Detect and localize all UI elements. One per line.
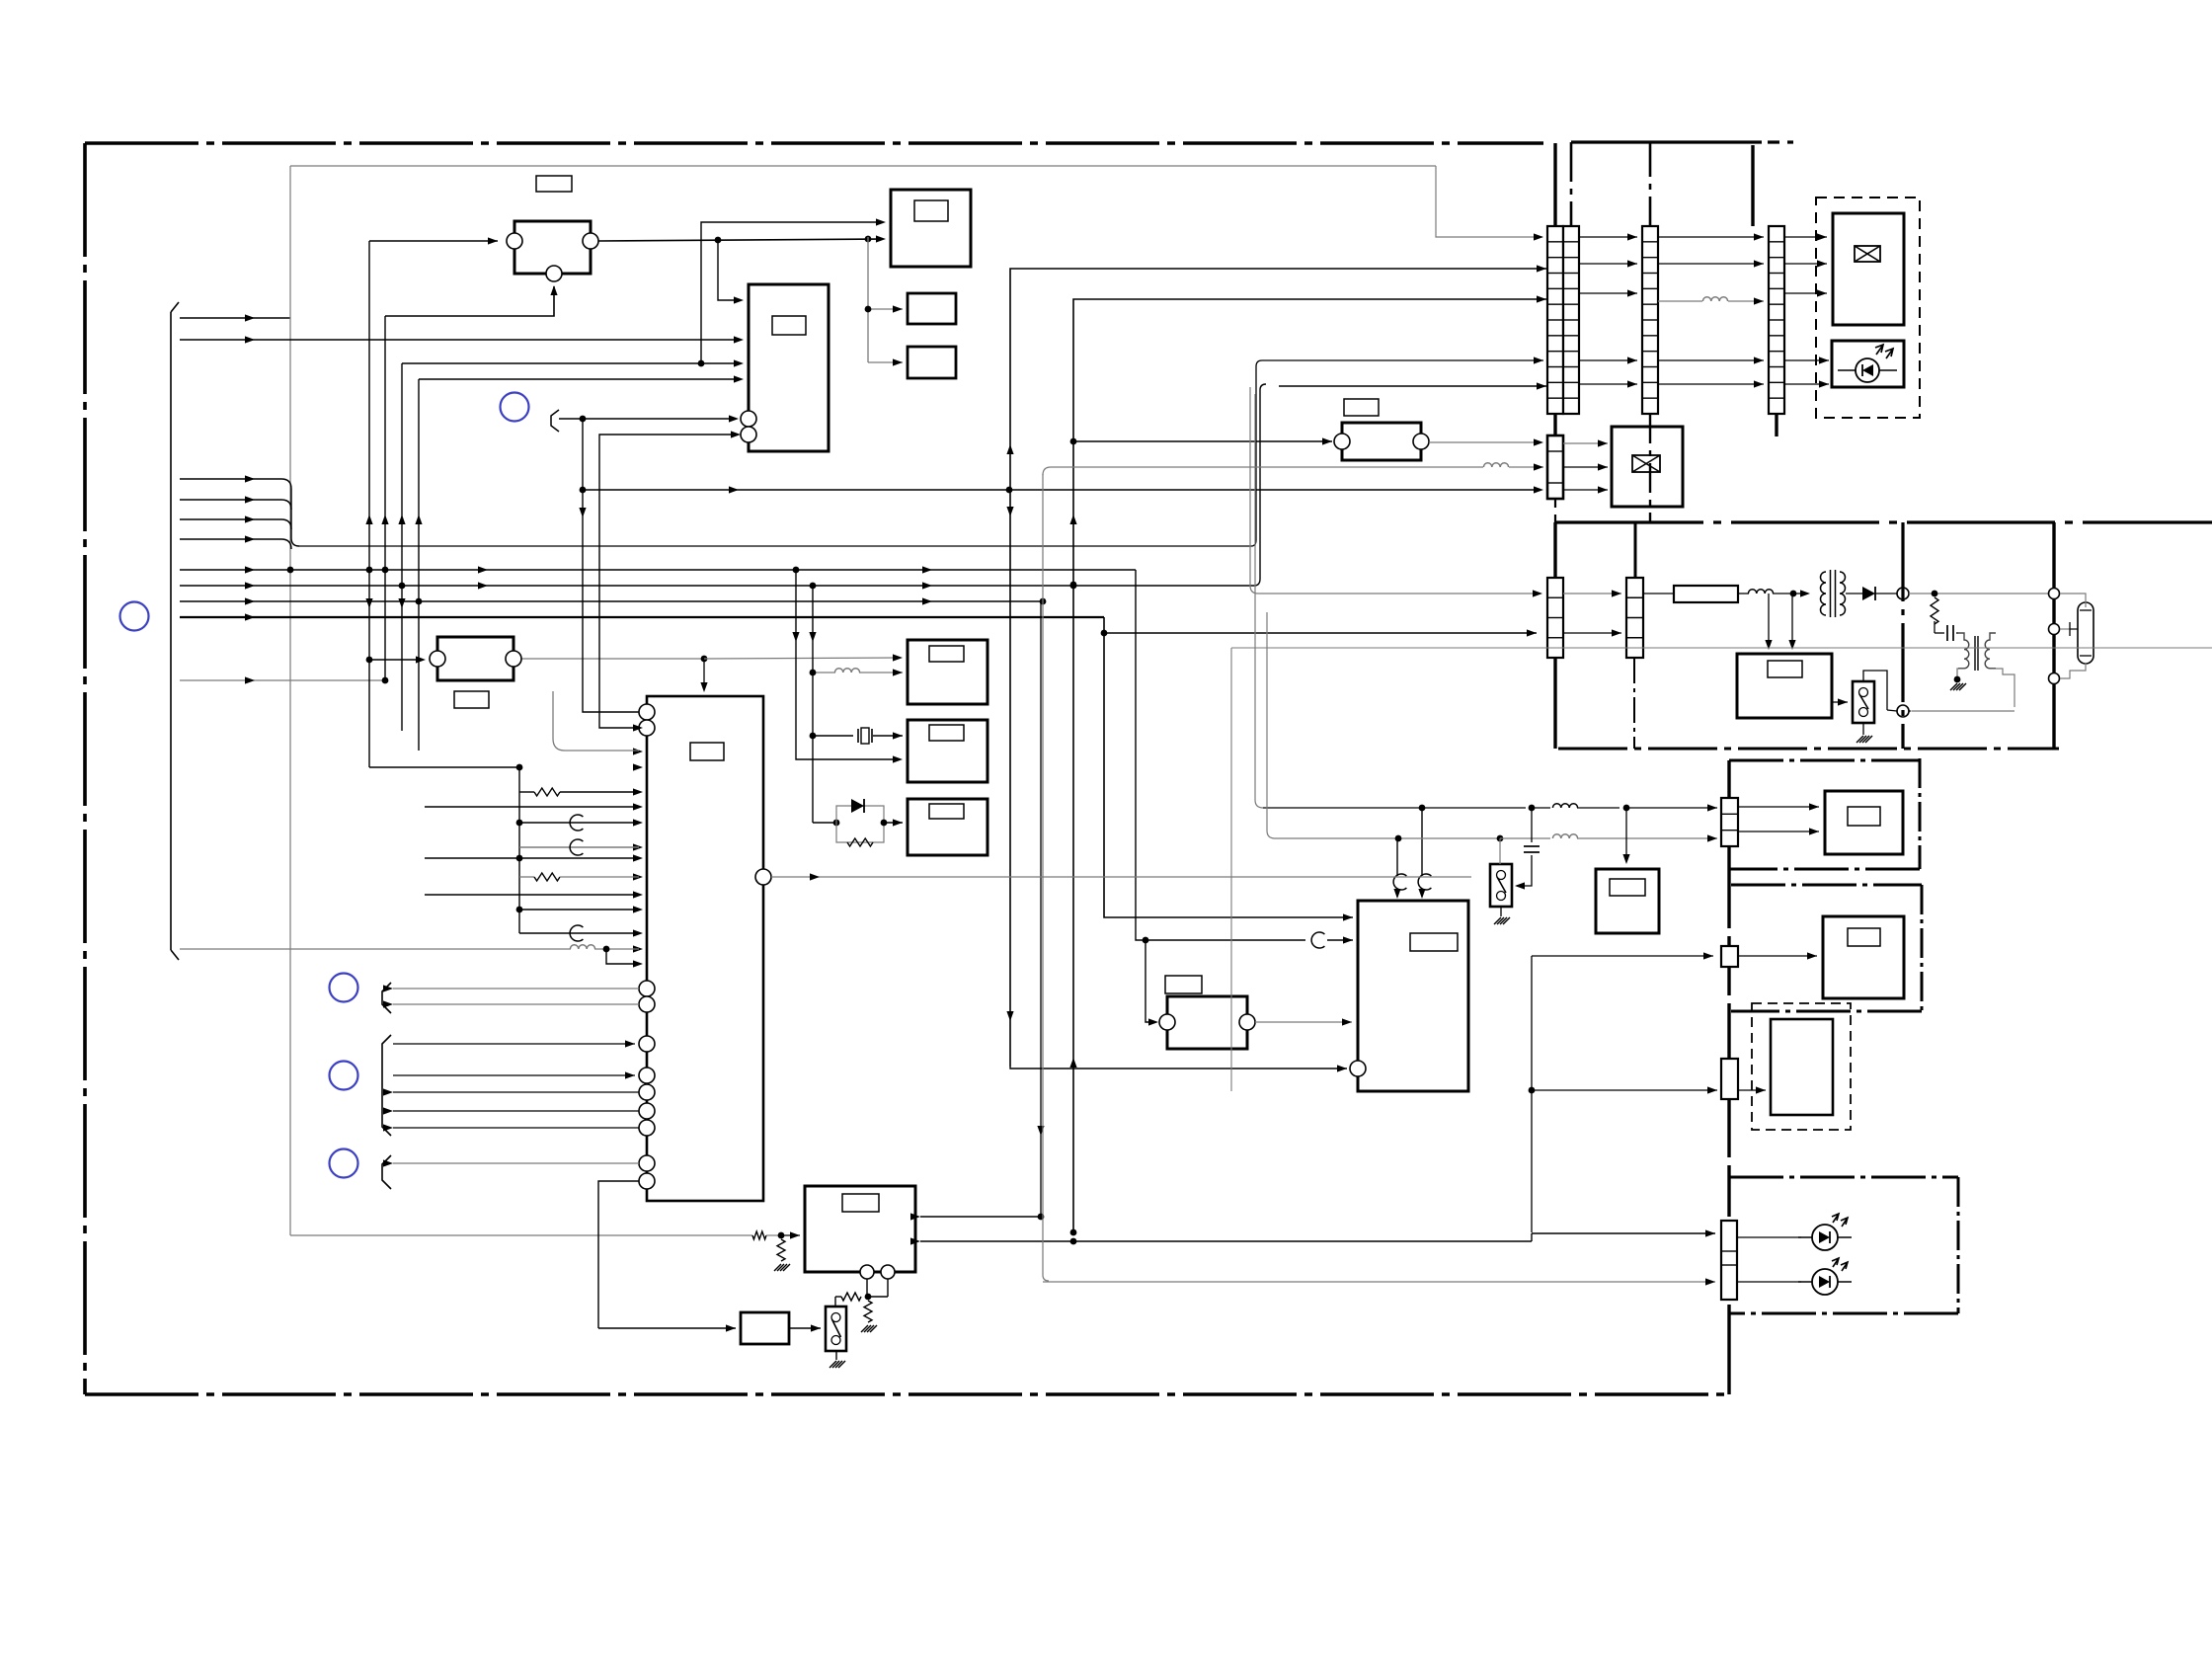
resistor R3 <box>752 1231 766 1239</box>
dashed module box <box>1816 198 1920 418</box>
small box U11 <box>741 1312 789 1344</box>
control box U8 <box>1737 654 1832 718</box>
board spine above CN5 <box>1553 522 1556 578</box>
board edge x1656 above <box>1634 522 1637 578</box>
wire loop x1023 up arrow <box>1006 444 1013 454</box>
wire T3 to node <box>1912 710 2014 712</box>
junction x526 y869 <box>516 855 523 862</box>
wire bundle1 arrowhead <box>245 475 255 482</box>
wire into CN8 arrowhead <box>1703 952 1713 959</box>
IC2 box <box>1358 901 1468 1091</box>
connector CN1 col2 <box>1563 226 1579 414</box>
board dashdot x1655 below <box>1633 658 1635 749</box>
reference circle 4 blue <box>330 1062 358 1090</box>
IC1 pin circle y1057 <box>639 1036 655 1052</box>
wire into pin y858 <box>519 846 639 848</box>
wire CN2-CN3 y240 <box>1658 236 1764 238</box>
wire U8 to SW2 arrowhead <box>1838 698 1848 705</box>
wire group2 d arrowhead <box>383 1107 393 1114</box>
wire into pin y888b <box>560 876 639 878</box>
wire into U12 y368 <box>701 362 739 364</box>
connector CN1 col2 divider 6 <box>1563 319 1579 321</box>
ground SW2 t4 <box>1865 736 1872 743</box>
wire main bus y625 arrowhead <box>245 613 255 620</box>
board spine x1751 seg2 <box>1727 869 1730 1011</box>
IC1 pin circle y1106 <box>639 1084 655 1100</box>
wire L2 out <box>1773 593 1807 594</box>
wire group2 c <box>393 1091 639 1093</box>
wire bundle3 cont <box>255 518 281 520</box>
capacitor C2 plate1 <box>1946 625 1948 641</box>
junction y818 x1551 <box>1529 805 1536 812</box>
wire CN2-CN3 y240 arrowhead <box>1754 233 1764 240</box>
wire bus1 horizontal <box>180 317 255 319</box>
wire SW1 gnd stem <box>835 1351 837 1360</box>
inductor speaker y849 <box>1552 834 1577 838</box>
wire into U10 right b arrowhead <box>910 1237 920 1244</box>
connector CN5 divider 1 <box>1547 596 1563 598</box>
wire U12 y304 arrowhead <box>734 296 744 303</box>
wire bundle2 <box>180 499 255 501</box>
wire U8 to SW2 <box>1832 701 1848 703</box>
wire T1 right out <box>598 239 882 241</box>
junction y818 x1440 <box>1419 805 1426 812</box>
IC1 pin arrow y761 <box>633 748 643 754</box>
U12 pin circle b <box>741 427 756 442</box>
wire lamp b <box>2060 628 2070 630</box>
led board top <box>1729 1176 1958 1179</box>
connector CN3 divider 2 <box>1769 257 1784 259</box>
transformer T3 winding1 <box>1958 633 1969 669</box>
wire y1257 bridge <box>1531 1233 1533 1241</box>
component T1 pin left <box>507 233 522 249</box>
junction y496 x1022 <box>1006 487 1013 494</box>
IC1 pin circle y1196 <box>639 1173 655 1189</box>
component C box <box>437 637 513 680</box>
connector CN6 divider 2 <box>1626 617 1643 619</box>
wire into CN4 y473b arrowhead <box>1534 463 1543 470</box>
switch SW3 bottom contact <box>1497 892 1506 901</box>
wire y496 arrow a <box>729 486 739 493</box>
component C pin left <box>430 651 445 667</box>
board edge dashdot x1591 <box>1570 142 1573 226</box>
wire bus y577 arrowhead <box>245 566 255 573</box>
speaker SP2 label <box>1848 928 1880 946</box>
connector CN1 col1 divider 3 <box>1547 273 1563 275</box>
IC1 pin arrow y961 <box>633 945 643 952</box>
IC1 pin circle y1001 <box>639 981 655 996</box>
wire into CN4 y473b <box>1509 466 1543 468</box>
wire x374 down arrowhead <box>365 598 372 608</box>
wire CN3-out y389 arrowhead <box>1819 380 1829 387</box>
wire speaker y849 into CN7 <box>1577 837 1717 839</box>
wire bus y593 arrow3 <box>922 582 932 589</box>
ground SW3 <box>1494 917 1501 924</box>
wire pin y760 riser <box>552 691 554 739</box>
connector CN2 divider 7 <box>1642 335 1658 337</box>
wire x1023 to IC2 pin <box>1010 1067 1347 1069</box>
bracket group2 <box>382 1035 391 1136</box>
node open circle y601 <box>1897 588 1909 599</box>
component T1 pin bottom <box>546 266 562 281</box>
wire x879 drop2 <box>867 309 869 362</box>
wire into IC2 pin y929 <box>1294 916 1353 918</box>
curl y833 <box>570 815 583 831</box>
wire junction chain x526 <box>518 767 520 933</box>
wire CN8 to SP2 <box>1738 955 1817 957</box>
LED2 lead <box>1798 1281 1852 1283</box>
wire group2 c arrowhead <box>383 1088 393 1095</box>
IC U12 box <box>749 284 829 451</box>
IC1 pin arrow y869 <box>633 854 643 861</box>
node open circle lamp b <box>2049 624 2060 635</box>
wire into pin y833 <box>519 822 639 824</box>
transformer T2 core1 <box>1830 570 1832 617</box>
wire to connector pin y391 arrowhead <box>1537 382 1546 389</box>
wire into pin y869 <box>425 857 639 859</box>
module U9 label <box>1610 879 1645 896</box>
dashed box DM <box>1752 1003 1851 1130</box>
connector CN7 divider 1 <box>1721 813 1738 815</box>
wire CN1-CN2 y389 arrowhead <box>1627 380 1637 387</box>
wire pin y976 branch <box>606 949 639 964</box>
wire group1 a <box>393 988 639 990</box>
wire net1 drop to connector <box>1436 166 1542 237</box>
bracket tick small <box>551 410 559 432</box>
wire x1551 drop2 <box>1531 1090 1533 1232</box>
junction x879 y313 <box>865 306 872 313</box>
inductor on CN2-CN3 wire <box>1702 297 1727 301</box>
wire drop U8 a arrowhead <box>1765 640 1772 650</box>
wire into pin y906 <box>425 894 639 896</box>
wire CN3-out y365 arrowhead <box>1819 356 1829 363</box>
wire group2 d <box>393 1110 639 1112</box>
wire into comp E arrowhead <box>1148 1018 1158 1025</box>
wire U10 pin a down <box>866 1279 868 1297</box>
inductor L2 <box>1748 590 1773 594</box>
wire CN3-out y240 arrowhead <box>1817 233 1827 240</box>
junction y849 x1416 <box>1395 835 1402 842</box>
ground SW3 t3 <box>1500 917 1507 924</box>
wire bus y577 cont <box>255 569 1136 571</box>
lamp tube (CCFL) <box>2078 602 2093 664</box>
wire into comp D <box>1073 440 1332 442</box>
connector CN6 divider 1 <box>1626 596 1643 598</box>
wire x1647 arrowhead <box>1622 854 1629 864</box>
wire riser x1276 <box>1259 390 1261 579</box>
LED2 ray1 <box>1832 1258 1839 1267</box>
board edge dashdot x1671 below <box>1649 414 1651 522</box>
connector CN3 divider 3 <box>1769 273 1784 275</box>
wire loop x1087 up arrow2 <box>1069 1058 1076 1068</box>
power box U10 label <box>842 1194 879 1212</box>
connector CN1 col1 divider 8 <box>1547 351 1563 353</box>
curl y858 <box>570 839 583 855</box>
wire into U6 pin b arrowhead <box>893 755 903 762</box>
junction y849 x1519 <box>1497 835 1504 842</box>
psu top frame y529 <box>1555 520 2212 523</box>
wire y496 long <box>583 489 1537 491</box>
connector CN1 col1 divider 9 <box>1547 366 1563 368</box>
switch SW3 lever <box>1497 877 1506 893</box>
connector CN1 col2 divider 4 <box>1563 287 1579 289</box>
IC1 pin circle y1089 <box>639 1068 655 1083</box>
wire vertical x823 <box>812 586 814 823</box>
wire gray y473 <box>1051 466 1483 468</box>
module M2 photodiode ray1 <box>1875 345 1883 355</box>
component T1 pin right <box>583 233 598 249</box>
wire drop into U8 b <box>1791 594 1793 648</box>
wire bundle2 bend <box>281 500 291 510</box>
wire net1 vertical riser <box>289 166 291 318</box>
wire merged bend up <box>1251 540 1256 546</box>
wire CN3-out y297 arrowhead <box>1817 289 1827 296</box>
connector CN2 divider 11 <box>1642 397 1658 399</box>
combo bottom branch <box>836 823 884 842</box>
IC1 pin circle y1142 <box>639 1120 655 1136</box>
wire x1118 drop to IC2 <box>1104 617 1294 917</box>
wire bus y577 <box>180 569 255 571</box>
wire speaker y849b <box>1500 837 1550 839</box>
connector CN3 divider 8 <box>1769 351 1784 353</box>
connector CN2 divider 5 <box>1642 303 1658 305</box>
board edge dashed below CN4 <box>1554 499 1556 522</box>
wire into T2 arrowhead <box>1800 590 1810 596</box>
wire U10 pin b left <box>868 1296 888 1298</box>
label box small top <box>536 176 572 192</box>
reference circle 5 blue <box>330 1149 358 1178</box>
junction y577 x374 <box>366 567 373 574</box>
connector CN1 col1 divider 4 <box>1547 287 1563 289</box>
speaker board1 right <box>1919 758 1922 869</box>
IC1 pin circle y721 <box>639 704 655 720</box>
wire bus2 long <box>180 339 255 341</box>
wire x1551 drop1 <box>1531 956 1533 1090</box>
wire CN4-M3 y473 arrowhead <box>1598 463 1608 470</box>
wire main bus y625 <box>180 616 255 618</box>
wire CN3-out y267 arrowhead <box>1817 260 1827 267</box>
curl IC2 top pin a <box>1393 874 1406 890</box>
component E pin left <box>1159 1014 1175 1030</box>
junction combo left <box>833 820 840 827</box>
wire x823 down arrowhead <box>809 632 816 642</box>
wire CN5-CN6 y641 <box>1563 632 1621 634</box>
LED1 ray1 <box>1832 1214 1839 1223</box>
wire x390 up arrowhead <box>381 515 388 524</box>
switch SW1 <box>826 1307 846 1351</box>
wire bus y577 arrow3 <box>922 566 932 573</box>
wire U12 pin a arrowhead2 <box>729 415 739 422</box>
connector CN2 divider 6 <box>1642 319 1658 321</box>
wire CN1-CN2 y267 arrowhead <box>1627 260 1637 267</box>
component E box <box>1167 996 1247 1049</box>
wire x424 top corner <box>419 378 739 380</box>
connector CN3 divider 10 <box>1769 381 1784 383</box>
wire CN4-M3 y473 <box>1563 466 1608 468</box>
wire CN9 to M4 arrowhead <box>1756 1086 1766 1093</box>
junction x1087 y1257 <box>1070 1238 1077 1245</box>
wire into U12 y304 <box>718 240 739 300</box>
left bus bracket tick bottom <box>171 950 179 960</box>
wire CN1-CN2 y240 <box>1579 236 1637 238</box>
wire bus1 cont <box>255 317 290 319</box>
inductor y473 <box>1483 463 1508 467</box>
wire bus y609 arrowhead <box>245 597 255 604</box>
component D pin right <box>1413 434 1429 449</box>
wire drop U8 b arrowhead <box>1788 640 1795 650</box>
inductor speaker y818 <box>1552 804 1577 808</box>
IC U2 box <box>891 190 971 267</box>
wire CN1-CN2 y267 <box>1579 263 1637 265</box>
power box U10 <box>805 1186 915 1272</box>
wire CN2-CN3 y365 <box>1658 359 1764 361</box>
wire CN4-M3 y449 <box>1563 442 1608 444</box>
connector CN1 col1 divider 11 <box>1547 397 1563 399</box>
wire lamp c <box>2060 663 2086 678</box>
led board right <box>1957 1177 1960 1313</box>
connector CN4 <box>1547 436 1563 499</box>
wire SW3 top <box>1499 838 1501 864</box>
psu dash-dot frame x1927 <box>1901 522 1904 749</box>
CN4 divider a <box>1547 450 1563 452</box>
connector CN2 divider 3 <box>1642 273 1658 275</box>
junction y818 x1647 <box>1623 805 1630 812</box>
wire speaker y849 into CN7 arrowhead <box>1707 834 1717 841</box>
wire into pin y802a <box>519 791 534 793</box>
wire SW2 gnd stem <box>1862 723 1864 735</box>
wire y1253 run right <box>1073 1240 1532 1242</box>
wire CN3-out y297 <box>1784 292 1827 294</box>
board spine thick x2080 <box>2052 522 2055 749</box>
wire CN3-out y365 <box>1784 359 1829 361</box>
junction x823 y681 <box>810 670 817 676</box>
module M2 photodiode bar <box>1861 364 1863 376</box>
wire bundle1 cont <box>255 478 281 480</box>
wire group2 e arrowhead <box>383 1124 393 1131</box>
IC1 pin arrow y817 <box>633 803 643 810</box>
wire into T1 left pin arrowhead <box>488 237 498 244</box>
wire to connector pin y365 <box>1262 359 1543 361</box>
module U5 box <box>908 640 987 704</box>
wire net1 top horizontal <box>290 165 1436 167</box>
ground R4 t4 <box>783 1264 790 1271</box>
switch SW2 lever <box>1859 694 1868 709</box>
main frame bottom border dash-dot <box>85 1392 1729 1396</box>
switch SW3 <box>1490 864 1512 907</box>
main frame left border dash-dot <box>83 143 87 1394</box>
wire into U3 arrowhead <box>893 305 903 312</box>
wire bundle merged run <box>299 545 1251 547</box>
connector CN1 col1 <box>1547 226 1563 414</box>
wire T3 to node arrowhead <box>1902 707 1912 714</box>
wire into U6 a cont arrowhead <box>893 732 903 739</box>
board edge thick x1775 <box>1751 145 1754 226</box>
component D box <box>1342 423 1421 460</box>
junction y609 x1056 <box>1040 598 1047 605</box>
wire into U12 pin b arrowhead <box>731 431 741 437</box>
wire riser2 top bend <box>1260 384 1266 390</box>
module M1 crossed rect diag2 <box>1855 246 1880 262</box>
connector CN3 divider 7 <box>1769 335 1784 337</box>
wire to small box <box>598 1327 736 1329</box>
wire from pin y1196 down <box>598 1181 639 1328</box>
board spine below CN5 <box>1553 658 1556 749</box>
LED1 ray2 <box>1841 1218 1848 1227</box>
junction T1 out x879 <box>865 236 872 243</box>
component E pin right <box>1239 1014 1255 1030</box>
led board bottom <box>1729 1312 1958 1315</box>
connector CN1 col1 divider 6 <box>1547 319 1563 321</box>
wire gray vert x1283 bend <box>1267 831 1275 838</box>
wire bundle4 cont <box>255 538 281 540</box>
wire gray riser PSU horizontal <box>1258 593 1540 594</box>
module M2 photodiode triangle <box>1862 364 1873 376</box>
bracket group1 <box>382 983 391 1013</box>
wire group2 b arrowhead <box>625 1071 635 1078</box>
wire into U10 right a arrowhead <box>910 1213 920 1220</box>
module M3 box <box>1612 427 1683 507</box>
wire bus y593 cont <box>255 585 1254 587</box>
wire CN7 to SP1 b <box>1738 831 1819 832</box>
bracket group3 <box>382 1155 391 1189</box>
junction x526 y921 <box>516 907 523 913</box>
wire group1 b <box>393 1003 639 1005</box>
junction x1551 y1104 <box>1529 1087 1536 1094</box>
wire y496 arrow b <box>1534 486 1543 493</box>
transformer T2 primary <box>1821 572 1827 615</box>
wire bus y593 <box>180 585 255 587</box>
IC1 pin arrow y906 <box>633 891 643 898</box>
wire bracket to U12 pin a <box>559 418 735 420</box>
CN10 divider a <box>1721 1250 1737 1252</box>
gray board boundary center <box>1231 647 2212 649</box>
wire into IC2 pin y929 arrowhead <box>1343 913 1353 920</box>
module M1 box <box>1833 213 1904 325</box>
gray board boundary center vert <box>1230 648 1232 1091</box>
wire bundle1 bend <box>281 479 291 489</box>
diode D2 bar <box>1874 587 1876 600</box>
wire into pin y888a <box>519 876 534 878</box>
wire drop into U8 a <box>1768 594 1770 648</box>
connector CN2 divider 1 <box>1642 241 1658 243</box>
inductor U5 b <box>834 669 859 673</box>
resistor R4 <box>777 1239 785 1261</box>
wire IC1 right pin arrowhead <box>810 873 820 880</box>
wire vertical x390 <box>384 316 386 680</box>
wire IC2 top pin b <box>1421 808 1423 876</box>
board edge thick x1575 <box>1553 143 1556 226</box>
wire into U2 pin y225 <box>701 222 882 363</box>
wire x407 down arrowhead <box>398 598 405 608</box>
wire into CN10 lower gray <box>1043 1281 1715 1283</box>
wire U11 to SW1 arrowhead <box>811 1324 821 1331</box>
module M3 crossed rect <box>1632 455 1660 472</box>
connector CN1 col2 divider 11 <box>1563 397 1579 399</box>
main frame top border dash-dot <box>85 141 1543 145</box>
junction x806 y577b <box>793 567 800 574</box>
wire group2 e <box>393 1127 639 1129</box>
wire T3 out right <box>1996 669 2014 707</box>
sub frame top solid <box>1571 140 1762 143</box>
switch SW3 top contact <box>1497 871 1506 880</box>
wire U11 to SW1 <box>789 1327 821 1329</box>
wire U12 y344 arrowhead <box>734 336 744 343</box>
wire into U10 right a <box>920 1216 1041 1218</box>
connector CN1 col2 divider 1 <box>1563 241 1579 243</box>
wire loop x1087 arrowhead <box>1537 295 1546 302</box>
wire lamp a <box>2060 594 2086 607</box>
IC1 pin arrow y833 <box>633 819 643 826</box>
